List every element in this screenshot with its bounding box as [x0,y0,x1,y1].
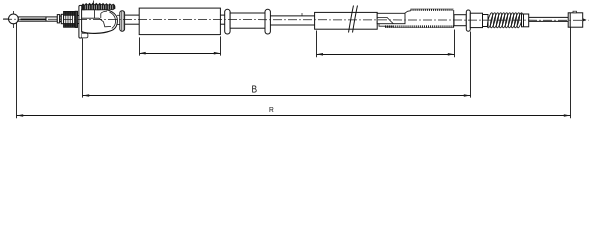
cable sheath segment 1 top [125,14,140,16]
front rod division [45,17,47,21]
housing internal vertical rib [93,10,95,18]
dim R arrow right [564,114,571,117]
adjuster neck [60,16,62,22]
dim conduit extension right [454,30,456,58]
ratchet strip hatch [85,5,113,9]
ball end crosshair vertical [12,11,14,28]
housing internal upper curve [101,11,107,13]
housing lever pin [93,1,95,10]
spring guard end line [453,10,455,28]
abutment cylinder [470,13,482,27]
rear stud [583,18,587,21]
stop ring 1 [225,9,230,34]
spring end fitting [522,14,529,27]
svg-text:B: B [252,85,258,96]
housing cable exit top [117,14,120,16]
dim sleeve1 line [139,53,220,55]
outlet grommet inner line 2 [122,11,124,31]
cable sheath segment 1 bottom [125,23,140,25]
dim B extension left [82,38,84,97]
housing foot [82,33,88,38]
cable sheath segment 2 bottom [220,23,224,25]
abutment step [483,15,489,27]
break mark line 1 [349,6,354,33]
dim conduit extension left [316,31,318,58]
dim sleeve1 extension right [220,36,222,55]
spring guard bottom coil band [385,25,454,27]
outer conduit sleeve 2 [315,12,378,29]
dim conduit line [317,54,455,56]
rear end block [568,13,583,27]
dim R arrow left [17,114,24,117]
return spring [486,12,523,28]
clip tick [301,13,303,16]
dim B arrow right [464,94,471,97]
spring end fitting inner line [523,14,525,27]
outlet grommet inner line 1 [120,11,122,31]
dim conduit arrow right [448,53,455,56]
dim B extension right [470,32,472,98]
spacer tube [230,13,265,28]
adjuster flange 1 [57,15,59,23]
dim R extension left [16,23,18,119]
spring guard top edge [411,8,454,10]
housing cable exit bottom [117,23,120,25]
rear end block cap line [569,13,571,27]
conduit lower step line [379,24,393,27]
adjuster neck 2 [77,16,79,24]
dim B arrow left [83,94,90,97]
front rod [18,17,57,21]
front rod thread band [21,18,47,20]
conduit end cylinder [454,15,466,26]
conduit step inner lines [377,17,393,23]
spring guard bottom edge [385,27,454,29]
rear rod top [529,16,569,18]
dim sleeve1 arrow right [214,52,221,55]
protective sleeve 1 [139,8,220,34]
dim sleeve1 extension left [139,37,141,55]
outlet grommet [120,11,125,32]
housing internal step vertical [100,13,102,18]
spring guard top step [405,11,411,14]
centerline [3,19,589,20]
dim conduit arrow left [317,53,324,56]
adjuster drum [64,11,78,27]
dim sleeve1 arrow left [139,52,146,55]
bracket plate [79,5,82,38]
dim R line [17,115,571,117]
rear end block nub [573,11,577,13]
ball end [9,14,19,24]
cable sheath segment 2 top [220,14,224,16]
dim R extension right [570,27,572,118]
end flange [466,10,470,31]
ball end crosshair horizontal [3,18,20,20]
housing internal cable line [82,18,111,27]
housing internal bottom curve [88,31,112,34]
dim B line [83,95,471,97]
ratchet serrated strip [81,3,115,11]
adjuster flange 2 [61,14,63,23]
cable sheath segment 3 bottom [270,24,314,26]
spring guard top coil band [411,9,454,11]
cable sheath segment 3 top [270,15,314,17]
housing internal curve right [110,12,116,28]
conduit step piece [377,13,405,23]
stop ring 2 [265,9,270,34]
rear rod bottom [529,20,569,22]
break mark line 2 [353,6,358,33]
housing body [82,10,118,34]
svg-text:R: R [269,105,274,114]
